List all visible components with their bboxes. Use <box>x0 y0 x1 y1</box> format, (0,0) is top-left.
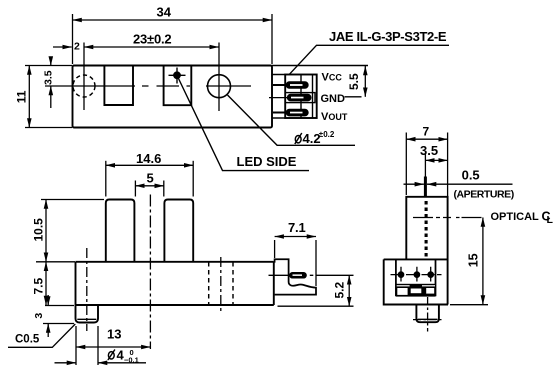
side pins <box>398 267 433 282</box>
svg-text:7: 7 <box>423 125 430 139</box>
svg-text:5.2: 5.2 <box>333 281 347 298</box>
svg-text:VCC: VCC <box>322 72 343 84</box>
hidden mounting boss circle (dashed) <box>73 75 95 97</box>
horizontal centerline top view <box>45 85 251 87</box>
aperture hidden slit dotted <box>425 201 428 258</box>
connector side profile <box>274 259 316 294</box>
side peg centerlines <box>427 297 429 332</box>
connector inner wall <box>301 75 313 119</box>
svg-text:(APERTURE): (APERTURE) <box>454 189 514 201</box>
dimension 3 <box>43 295 74 337</box>
dimension phi 4 <box>55 326 147 365</box>
side tower outline <box>406 197 447 305</box>
right tower <box>164 200 193 262</box>
svg-text:13: 13 <box>107 327 121 342</box>
svg-text:OPTICAL: OPTICAL <box>491 211 540 223</box>
aperture 0.5 arrows <box>404 183 513 185</box>
dimension 5 <box>135 181 163 197</box>
connector stub top line / 5.5 extension <box>272 65 368 67</box>
svg-text:JAE IL-G-3P-S3T2-E: JAE IL-G-3P-S3T2-E <box>329 29 447 44</box>
dimension 7.5 <box>45 262 47 305</box>
svg-text:7.1: 7.1 <box>288 220 305 235</box>
vertical centerline boss <box>83 43 85 111</box>
side peg <box>416 305 439 323</box>
dimension 7 side <box>406 133 447 197</box>
pin 2 GND <box>288 95 311 101</box>
connector housing outline <box>285 75 317 119</box>
hole hidden lines <box>209 262 233 305</box>
peg centerline <box>86 248 88 331</box>
connector middle pin box <box>285 93 315 103</box>
dimension 13 <box>76 326 150 365</box>
mounting hole circle <box>208 75 231 98</box>
svg-text:14.6: 14.6 <box>136 151 161 166</box>
label phi 4.2 +-0.2 <box>295 136 301 143</box>
left tower <box>106 200 135 262</box>
GND extension dash <box>345 96 362 98</box>
dimension 5.2 <box>278 275 354 306</box>
top view slot window notch right <box>164 66 192 106</box>
dimension 3.5 top view <box>50 57 52 108</box>
dimension 5.5 <box>364 66 366 97</box>
svg-text:LED SIDE: LED SIDE <box>237 154 297 169</box>
svg-text:10.5: 10.5 <box>32 218 46 242</box>
svg-text:−0.1: −0.1 <box>124 356 139 365</box>
vertical centerline hole <box>218 43 220 112</box>
top view body outline <box>73 66 273 128</box>
svg-text:11: 11 <box>14 90 28 103</box>
svg-text:VOUT: VOUT <box>321 111 348 123</box>
dimension 34 <box>73 14 273 64</box>
dimension 15 <box>450 218 488 305</box>
side peg chamfer <box>418 318 438 320</box>
dimension 10.5 <box>36 200 104 262</box>
connector shroud walls <box>396 259 436 296</box>
svg-text:2: 2 <box>74 41 80 53</box>
side housing outer box <box>384 259 448 304</box>
svg-text:0.5: 0.5 <box>462 168 480 183</box>
svg-text:3: 3 <box>33 313 45 319</box>
hole centerline front <box>220 257 222 314</box>
pin centerline <box>269 274 314 276</box>
optical centerline <box>413 217 483 219</box>
LED position mark <box>169 68 186 84</box>
connector stub lines <box>272 75 285 119</box>
svg-text:34: 34 <box>157 5 172 20</box>
svg-text:C0.5: C0.5 <box>15 334 40 346</box>
pin 1 Vcc <box>286 82 308 88</box>
pin Vcc lead stub <box>273 84 286 86</box>
svg-text:3.5: 3.5 <box>420 143 438 158</box>
svg-text:L: L <box>547 214 554 226</box>
dimension 3.5 side <box>425 159 447 161</box>
dimension 23±0.2 <box>84 46 219 48</box>
aperture centerline above <box>424 155 426 177</box>
shroud key band <box>396 284 436 297</box>
mounting peg front <box>76 305 99 323</box>
pin GND lead stub <box>269 97 288 99</box>
side pins centerline <box>391 274 442 276</box>
peg chamfer line <box>77 318 96 320</box>
hole leader phi 4.2 <box>228 95 356 145</box>
svg-text:15: 15 <box>467 253 481 267</box>
dimension 14.6 <box>106 161 193 197</box>
svg-text:7.5: 7.5 <box>32 277 46 294</box>
svg-text:5.5: 5.5 <box>347 73 361 90</box>
dimension 11 <box>25 66 72 128</box>
front body outline <box>76 262 274 305</box>
JAE connector leader <box>290 45 450 74</box>
svg-text:5: 5 <box>147 170 154 185</box>
svg-text:23±0.2: 23±0.2 <box>133 32 171 47</box>
pin 3 Vout <box>286 110 308 116</box>
svg-text:GND: GND <box>321 93 346 105</box>
aperture slit bar <box>424 177 427 197</box>
connector pin side <box>290 273 306 278</box>
LED leader <box>179 79 310 171</box>
pin Vout lead stub <box>273 112 286 114</box>
svg-text:±0.2: ±0.2 <box>319 130 335 139</box>
slot centerline <box>149 195 151 350</box>
top view slot window notch left <box>104 66 133 106</box>
svg-text:3.5: 3.5 <box>43 70 55 85</box>
dimension 7.1 <box>275 237 316 287</box>
chamfer C0.5 label <box>8 324 75 347</box>
dimension 2 <box>53 46 72 48</box>
label phi 4 0/-0.1 <box>108 352 114 359</box>
